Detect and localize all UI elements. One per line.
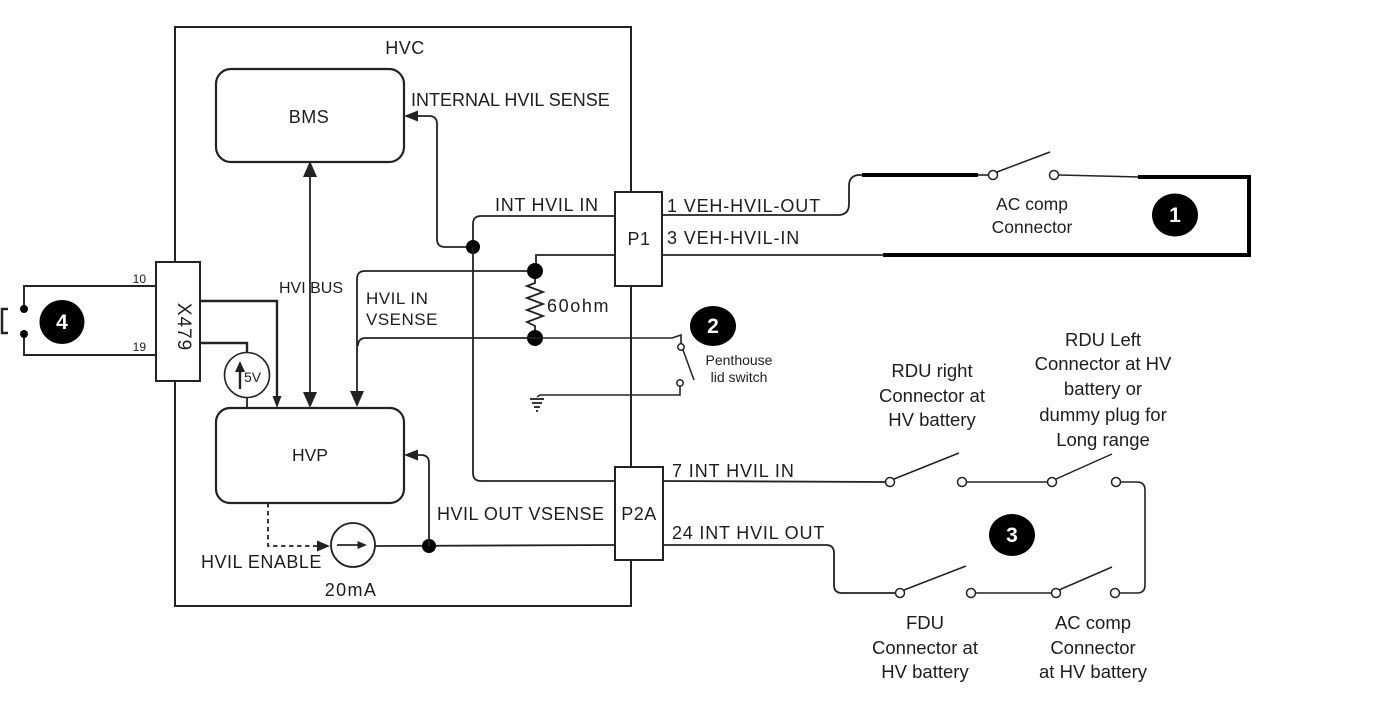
wire HVI BUS double arrow BMS-HVP xyxy=(303,161,317,408)
svg-text:1: 1 xyxy=(1169,204,1181,227)
svg-text:20mA: 20mA xyxy=(325,580,378,600)
P1 connector box xyxy=(615,192,662,286)
AC comp switch contact 2 xyxy=(1050,171,1059,180)
wire node B right to penthouse switch xyxy=(535,335,681,344)
wire X479 to 5V source xyxy=(200,343,247,353)
FDU switch contact 2 xyxy=(967,589,976,598)
thick wire top segment left (1) xyxy=(862,173,978,177)
wire node J1 down to P2A pin 7 xyxy=(473,247,615,481)
wire INTERNAL HVIL SENSE (from node J1 to BMS) xyxy=(407,116,473,247)
FDU switch blade xyxy=(904,566,966,590)
AC comp battery switch contact 1 xyxy=(1052,589,1061,598)
thick wire right vertical (1) xyxy=(1247,175,1251,255)
svg-text:1 VEH-HVIL-OUT: 1 VEH-HVIL-OUT xyxy=(667,196,821,216)
svg-text:RDU right: RDU right xyxy=(891,360,972,381)
AC comp switch blade xyxy=(997,152,1050,172)
wire switch to thick top right xyxy=(1059,175,1140,177)
ground symbol xyxy=(530,399,544,411)
AC comp battery switch blade xyxy=(1059,567,1112,590)
svg-text:HVP: HVP xyxy=(292,445,328,465)
callout 1 xyxy=(1152,194,1198,237)
RDU right switch blade xyxy=(894,453,959,479)
wire INT HVIL IN (node J1 up to P1) xyxy=(473,216,615,247)
connector 4 contact dot lower xyxy=(20,330,28,338)
wire X479 pin 10 xyxy=(24,286,156,309)
wire P1 pin3 stub to node A xyxy=(536,255,615,271)
svg-text:2: 2 xyxy=(707,315,719,338)
penthouse lid switch blade xyxy=(683,350,694,380)
svg-text:Connector at HV: Connector at HV xyxy=(1035,353,1172,374)
RDU right switch contact 2 xyxy=(958,478,967,487)
wire between bottom switches xyxy=(975,592,1052,594)
wire X479 pin 19 xyxy=(24,334,156,355)
callout 3 xyxy=(989,514,1035,556)
svg-text:P2A: P2A xyxy=(621,504,657,524)
RDU left switch blade xyxy=(1056,454,1112,479)
svg-text:Connector at: Connector at xyxy=(879,385,985,406)
svg-text:Connector: Connector xyxy=(992,217,1073,237)
svg-text:7 INT HVIL IN: 7 INT HVIL IN xyxy=(672,461,795,481)
HVC enclosure box xyxy=(175,27,631,606)
wire to switch contact xyxy=(978,174,989,176)
svg-text:10: 10 xyxy=(133,272,147,286)
node J1 junction dot xyxy=(466,240,480,254)
svg-text:FDU: FDU xyxy=(906,612,944,633)
svg-text:at HV battery: at HV battery xyxy=(1039,661,1148,682)
arrowhead HVIL ENABLE xyxy=(317,541,330,552)
BMS box U-BMS xyxy=(216,69,404,162)
svg-text:HVI BUS: HVI BUS xyxy=(279,280,343,297)
AC comp switch contact 1 xyxy=(989,171,998,180)
wire P1 pin1 to AC comp loop xyxy=(662,175,866,215)
wire between top switches xyxy=(967,481,1048,483)
svg-text:4: 4 xyxy=(56,311,68,334)
wire node B left to HVP vertical (HVIL IN VSENSE lower) xyxy=(358,338,535,346)
svg-text:INTERNAL HVIL SENSE: INTERNAL HVIL SENSE xyxy=(411,90,610,110)
svg-text:dummy plug for: dummy plug for xyxy=(1039,404,1167,425)
wire 20mA to node C to P2A pin24 xyxy=(375,545,615,546)
svg-text:lid switch: lid switch xyxy=(711,369,768,385)
arrowhead HVIL IN VSENSE into HVP xyxy=(350,391,364,407)
voltage source V1 5V xyxy=(225,353,270,398)
svg-text:HV battery: HV battery xyxy=(888,409,976,430)
wire X479 to HVP xyxy=(200,301,277,398)
AC comp battery switch contact 2 xyxy=(1111,589,1120,598)
thick wire bottom segment (1) xyxy=(883,253,1251,257)
node C junction dot xyxy=(422,539,436,553)
RDU left switch contact 1 xyxy=(1048,478,1057,487)
svg-text:BMS: BMS xyxy=(289,107,330,127)
connector 4 bracket xyxy=(2,309,8,333)
svg-text:battery or: battery or xyxy=(1064,378,1142,399)
wire P2A pin7 right to RDU right switch xyxy=(663,481,886,482)
wire HVIL OUT VSENSE node C to HVP xyxy=(407,455,429,546)
callout 4 xyxy=(40,300,85,344)
svg-text:Penthouse: Penthouse xyxy=(706,352,773,368)
wire switch to ground xyxy=(537,386,680,397)
svg-text:19: 19 xyxy=(133,340,147,354)
thick wire top segment right (1) xyxy=(1138,175,1249,179)
penthouse lid switch contact 1 xyxy=(678,344,684,350)
svg-text:Long range: Long range xyxy=(1056,429,1150,450)
svg-text:AC comp: AC comp xyxy=(996,194,1068,214)
svg-text:AC comp: AC comp xyxy=(1055,612,1131,633)
svg-text:P1: P1 xyxy=(627,229,650,249)
node B junction dot xyxy=(527,330,543,346)
HVP box U-HVP xyxy=(216,408,404,503)
node A junction dot xyxy=(527,263,543,279)
wire right side loop down xyxy=(1119,482,1145,593)
svg-text:HVC: HVC xyxy=(385,38,425,58)
penthouse lid switch contact 2 xyxy=(677,380,683,386)
svg-text:VSENSE: VSENSE xyxy=(366,310,438,329)
svg-text:3: 3 xyxy=(1006,524,1018,547)
X479 connector box xyxy=(156,262,200,381)
FDU switch contact 1 xyxy=(896,589,905,598)
svg-text:HVIL ENABLE: HVIL ENABLE xyxy=(201,552,322,572)
svg-text:5V: 5V xyxy=(244,369,262,385)
svg-text:X479: X479 xyxy=(173,303,194,351)
arrowhead HVIL OUT VSENSE into HVP xyxy=(404,450,418,461)
resistor R1 60ohm xyxy=(527,279,543,330)
wire P1 pin3 right xyxy=(662,254,884,256)
svg-text:INT HVIL IN: INT HVIL IN xyxy=(495,195,599,215)
svg-text:HVIL OUT VSENSE: HVIL OUT VSENSE xyxy=(437,504,605,524)
svg-text:60ohm: 60ohm xyxy=(547,296,610,316)
arrowhead X479 wire into HVP xyxy=(273,396,282,408)
wire 5V to HVP xyxy=(246,397,248,408)
current source I1 20mA xyxy=(331,523,375,567)
svg-text:HV battery: HV battery xyxy=(881,661,969,682)
wire P2A pin24 to FDU switch xyxy=(663,545,895,593)
callout 2 xyxy=(690,306,736,346)
svg-text:Connector at: Connector at xyxy=(872,637,978,658)
wire node A to HVP (HVIL IN VSENSE upper) xyxy=(357,271,535,396)
arrowhead into BMS xyxy=(404,111,418,122)
RDU left switch contact 2 xyxy=(1112,478,1121,487)
svg-text:Connector: Connector xyxy=(1050,637,1135,658)
RDU right switch contact 1 xyxy=(886,478,895,487)
svg-text:24 INT HVIL OUT: 24 INT HVIL OUT xyxy=(672,523,825,543)
svg-text:3 VEH-HVIL-IN: 3 VEH-HVIL-IN xyxy=(667,228,800,248)
P2A connector box xyxy=(615,467,663,560)
svg-text:RDU Left: RDU Left xyxy=(1065,329,1141,350)
connector 4 contact dot upper xyxy=(20,305,28,313)
wire HVIL ENABLE dashed xyxy=(268,503,318,546)
svg-text:HVIL IN: HVIL IN xyxy=(366,289,428,308)
